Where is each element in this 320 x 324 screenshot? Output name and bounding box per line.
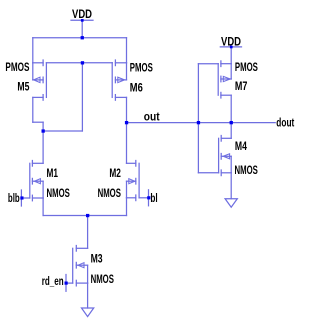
wire out net horizontal to dout <box>127 122 276 124</box>
svg-text:NMOS: NMOS <box>98 186 121 200</box>
transistor M5 (PMOS) <box>33 60 47 100</box>
svg-text:blb: blb <box>8 191 20 205</box>
pin dot blb <box>20 196 23 199</box>
wire out node down to M2 drain <box>126 123 128 164</box>
wire out riser down to M4 gate <box>197 123 199 173</box>
svg-text:M4: M4 <box>235 139 247 153</box>
svg-text:PMOS: PMOS <box>235 60 258 74</box>
node junction out at M7 drain <box>230 121 233 124</box>
wire top VDD rail <box>33 37 127 39</box>
node junction out at M6 drain <box>125 121 128 124</box>
svg-text:NMOS: NMOS <box>47 186 70 200</box>
svg-text:VDD: VDD <box>221 34 241 48</box>
wire tail drop to M3 <box>87 216 89 249</box>
svg-text:PMOS: PMOS <box>130 60 153 74</box>
ground symbol below M3 <box>82 308 94 317</box>
wire left rail drop to M5 source <box>32 38 34 63</box>
wire M6 drain down to out node <box>126 97 128 122</box>
wire gate feedback horizontal <box>43 130 82 132</box>
wire M7 drain down <box>230 95 232 122</box>
svg-text:NMOS: NMOS <box>91 272 114 286</box>
svg-text:M6: M6 <box>130 80 143 94</box>
wire M4 drain up to out <box>230 123 232 139</box>
svg-text:NMOS: NMOS <box>235 163 258 177</box>
wire blb to M1 gate <box>21 197 29 199</box>
svg-text:M3: M3 <box>91 251 103 265</box>
pin bl bar <box>148 190 150 206</box>
wire common source rail <box>43 215 126 217</box>
wire M3 source down <box>87 283 89 308</box>
transistor M1 (NMOS) <box>30 161 43 201</box>
ground symbol below M4 <box>225 199 237 208</box>
wire M4 gate horizontal <box>198 172 218 174</box>
pin dot bl <box>147 196 150 199</box>
svg-text:PMOS: PMOS <box>5 60 29 74</box>
node dot on VDD right bar <box>230 46 233 49</box>
transistor M4 (NMOS) <box>219 136 232 176</box>
svg-text:M2: M2 <box>109 166 121 180</box>
svg-text:rd_en: rd_en <box>42 274 64 288</box>
wire left branch down to M1 drain <box>42 122 44 163</box>
wire VDD right stem <box>230 47 232 64</box>
wire VDD left stem <box>81 20 83 37</box>
node junction on common gate wire <box>81 61 84 64</box>
node junction on top rail <box>81 36 84 39</box>
svg-text:M1: M1 <box>47 166 59 180</box>
transistor M7 (PMOS) <box>218 61 231 98</box>
svg-text:out: out <box>144 109 160 123</box>
wire gate feedback vertical <box>81 63 83 131</box>
wire M1 source down <box>42 198 44 216</box>
wire right rail drop to M6 source <box>126 38 128 63</box>
power symbol VDD (right) bar <box>220 46 241 48</box>
pin dot rd_en <box>65 282 68 285</box>
wire out riser vertical <box>197 64 199 123</box>
wire M4 source down <box>230 173 232 199</box>
svg-text:dout: dout <box>276 116 294 130</box>
wire M2 source down <box>126 198 128 216</box>
svg-text:M5: M5 <box>17 80 29 94</box>
transistor M2 (NMOS) <box>127 161 140 201</box>
svg-text:bl: bl <box>150 191 157 205</box>
power symbol VDD (left) bar <box>71 19 93 21</box>
node junction out at M7 gate riser <box>197 121 200 124</box>
transistor M3 (NMOS) <box>73 246 88 286</box>
wire M7 gate to out riser <box>198 63 218 65</box>
svg-text:VDD: VDD <box>72 7 92 21</box>
wire M2 gate to bl <box>139 197 148 199</box>
wire M5 drain down <box>32 97 34 122</box>
wire M5/M6 common gate line <box>46 62 112 64</box>
pin blb bar <box>20 190 22 206</box>
pin rd_en bar <box>65 275 67 292</box>
svg-text:M7: M7 <box>235 79 248 93</box>
node dot on VDD left bar <box>81 19 84 22</box>
wire rd_en to M3 gate <box>66 282 73 284</box>
transistor M6 (PMOS) <box>112 60 126 100</box>
wire M5 drain jog <box>33 121 43 123</box>
node junction on common source rail <box>86 214 89 217</box>
node junction on left branch <box>42 129 45 132</box>
